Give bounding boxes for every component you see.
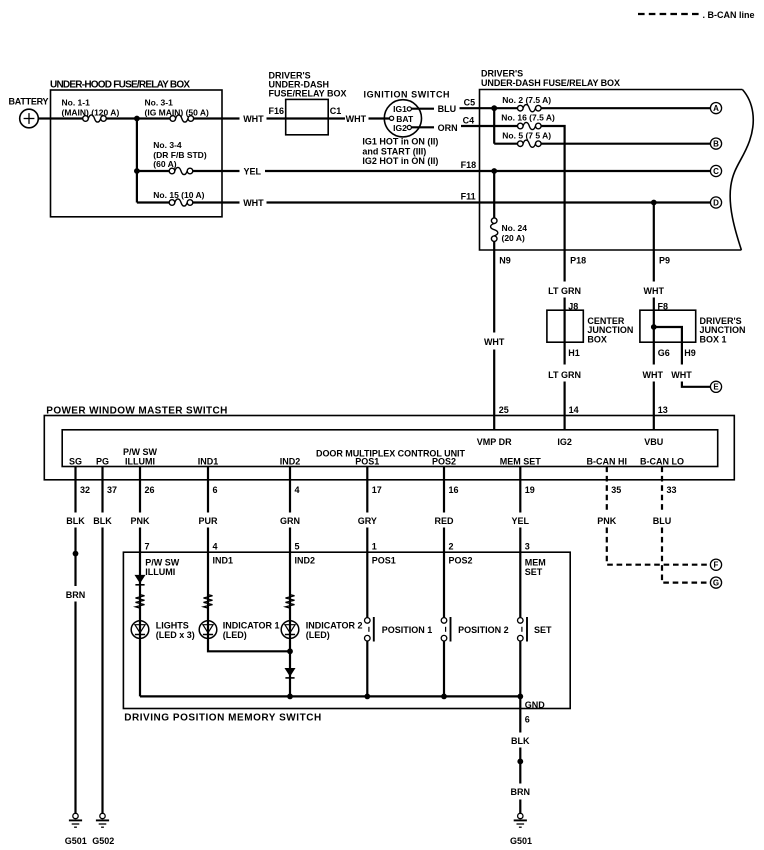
svg-text:BOX 1: BOX 1	[700, 335, 727, 345]
pin J8	[568, 301, 578, 311]
pin H1	[568, 348, 580, 358]
svg-text:F18: F18	[461, 160, 477, 170]
pin 4 (IND1)	[213, 542, 218, 552]
svg-text:BLU: BLU	[653, 516, 672, 526]
wire color label YEL	[244, 167, 262, 177]
connector F	[710, 559, 721, 570]
switch SET	[518, 617, 528, 642]
svg-text:GRN: GRN	[280, 516, 300, 526]
wire No.5 row from junction	[494, 143, 517, 145]
svg-text:ORN: ORN	[438, 123, 458, 133]
driver's under-dash fuse/relay box label	[481, 69, 620, 88]
svg-text:WHT: WHT	[243, 198, 264, 208]
pin 37	[107, 485, 117, 495]
svg-text:17: 17	[372, 485, 382, 495]
svg-text:F11: F11	[461, 191, 476, 201]
svg-text:G501: G501	[65, 836, 87, 846]
svg-text:4: 4	[213, 542, 218, 552]
pin 6	[213, 485, 218, 495]
svg-text:No. 1-1: No. 1-1	[62, 97, 91, 107]
svg-text:POS1: POS1	[372, 556, 396, 566]
connector G	[710, 577, 721, 588]
terminal label GND	[525, 700, 546, 710]
diode D1 on ILLUMI	[135, 575, 144, 584]
driver's under-dash fuse/relay box outline (wavy right edge)	[480, 90, 754, 251]
svg-text:RED: RED	[434, 516, 454, 526]
svg-text:WHT: WHT	[346, 114, 367, 124]
ground G502 symbol	[96, 813, 109, 827]
fuse No.1-1 (MAIN 120A)	[83, 115, 107, 122]
switch POSITION 1 label	[382, 625, 433, 635]
connector A	[710, 103, 721, 114]
wire ground bus in memory switch box	[140, 695, 520, 697]
center junction box label	[587, 316, 633, 345]
wire P18 down to center junction box	[563, 250, 565, 430]
svg-text:1: 1	[372, 542, 377, 552]
svg-text:(20 A): (20 A)	[502, 233, 525, 243]
battery B1 label	[9, 97, 49, 107]
node junction dot MEM SET at bus	[517, 694, 523, 700]
switch POSITION 2	[441, 617, 450, 642]
wire color label BLK on GND wire	[511, 736, 530, 746]
svg-text:No. 2 (7.5 A): No. 2 (7.5 A)	[502, 95, 551, 105]
pin C5	[464, 98, 476, 108]
wire YEL long run to under-dash box F18	[265, 170, 710, 172]
node junction dot inside driver's junction box	[651, 324, 657, 330]
svg-text:H1: H1	[568, 348, 580, 358]
wire row2 branch to fuse No.3-4	[137, 170, 169, 172]
node junction dot F11-P9	[651, 200, 657, 206]
wire row1 box edge to fuse No.1-1	[51, 117, 83, 119]
svg-text:6: 6	[525, 715, 530, 725]
wire POS1 column in box	[366, 552, 368, 696]
wire IND2 column in box	[289, 552, 291, 696]
terminal label VMP DR	[477, 437, 512, 447]
svg-text:C4: C4	[463, 115, 475, 125]
terminal label IG2	[557, 437, 572, 447]
svg-text:No. 16 (7.5 A): No. 16 (7.5 A)	[501, 113, 555, 123]
fuse No.1-1 label	[62, 97, 120, 117]
wire color label LT GRN upper	[548, 286, 581, 296]
terminal label MEM SET inside	[525, 558, 546, 577]
svg-text:GRY: GRY	[358, 516, 377, 526]
wire vertical C5 junction down to No.5 row	[493, 108, 495, 144]
wire fuse No.5 to connector B	[541, 143, 710, 145]
svg-text:3: 3	[525, 542, 530, 552]
pin 16	[449, 485, 459, 495]
ground G501 right label	[510, 836, 532, 846]
wire GND pin 6 down to ground G501	[519, 709, 521, 814]
pin G6	[658, 348, 670, 358]
wire color label WHT on H9 wire	[671, 370, 692, 380]
svg-text:(LED x 3): (LED x 3)	[156, 630, 195, 640]
node junction dot row1	[134, 116, 140, 122]
switch SET label	[534, 625, 552, 635]
fuse No.3-4 (DR F/B STD 60A)	[169, 167, 193, 174]
wire B-CAN LO dashed pin 33 to connector G	[662, 467, 710, 583]
wire row3 branch to fuse No.15	[137, 201, 169, 203]
svg-text:SG: SG	[69, 456, 82, 466]
svg-text:IG2 HOT in ON (II): IG2 HOT in ON (II)	[362, 156, 438, 166]
terminal label SG	[69, 456, 82, 466]
svg-text:GND: GND	[525, 700, 546, 710]
terminal label POS2 inside	[449, 556, 473, 566]
wire color label PUR on IND1	[198, 516, 218, 526]
svg-text:32: 32	[80, 485, 90, 495]
wire IND2 pin 4 down to memory switch pin 5	[289, 467, 291, 553]
wire color label LT GRN lower	[548, 370, 581, 380]
svg-text:SET: SET	[534, 625, 552, 635]
ground G501 left symbol	[69, 813, 82, 827]
terminal label POS1	[355, 456, 379, 466]
terminal label IND1	[198, 456, 219, 466]
svg-text:YEL: YEL	[244, 167, 262, 177]
node junction dot on SG wire	[73, 551, 79, 557]
wire POS2 column in box	[443, 552, 445, 696]
wire color label BLU	[438, 104, 457, 114]
svg-text:IG2: IG2	[557, 437, 572, 447]
wire color label WHT row1	[243, 114, 264, 124]
svg-text:C: C	[713, 167, 719, 176]
diode D2 on IND2	[285, 669, 294, 678]
svg-text:25: 25	[499, 405, 509, 415]
wire C4 entry to fuse No.16	[480, 125, 518, 127]
svg-text:N9: N9	[499, 255, 511, 265]
svg-text:SET: SET	[525, 567, 543, 577]
connector D	[710, 197, 721, 208]
svg-text:4: 4	[295, 485, 300, 495]
fuse No.15 label	[153, 190, 204, 200]
node junction dot F18	[491, 168, 497, 174]
svg-text:2: 2	[449, 542, 454, 552]
svg-text:B-CAN HI: B-CAN HI	[587, 456, 628, 466]
svg-text:C5: C5	[464, 98, 476, 108]
svg-text:LT GRN: LT GRN	[548, 370, 581, 380]
svg-text:WHT: WHT	[644, 286, 665, 296]
ground G501 left label	[65, 836, 87, 846]
wire F18 junction down to fuse No.24	[493, 171, 495, 218]
svg-text:BRN: BRN	[511, 787, 531, 797]
ignition switch terminal IG1	[393, 104, 411, 114]
node junction dot POS2 at bus	[441, 694, 447, 700]
svg-text:BRN: BRN	[66, 590, 86, 600]
pin 5	[295, 542, 300, 552]
svg-text:YEL: YEL	[512, 516, 530, 526]
wire color label WHT on P9 wire	[644, 286, 665, 296]
pin 35	[611, 485, 621, 495]
svg-text:BLU: BLU	[438, 104, 457, 114]
fuse No.3-4 label	[153, 140, 207, 169]
svg-text:WHT: WHT	[643, 370, 664, 380]
wire IG1 to BLU	[411, 108, 434, 110]
svg-text:BOX: BOX	[587, 335, 607, 345]
connector C	[710, 165, 721, 176]
wire IND1 column in box	[208, 552, 290, 651]
pin C1	[330, 106, 342, 116]
wire branch to H9	[654, 327, 711, 387]
svg-text:6: 6	[213, 485, 218, 495]
svg-text:16: 16	[449, 485, 459, 495]
svg-text:ILLUMI: ILLUMI	[125, 456, 155, 466]
svg-text:B-CAN LO: B-CAN LO	[640, 456, 684, 466]
wire fuse No.3-1 out of box	[194, 117, 240, 119]
pin 14	[569, 405, 579, 415]
wire color label WHT on N9 wire	[484, 337, 505, 347]
ground G502 label	[92, 836, 114, 846]
svg-text:C1: C1	[330, 106, 342, 116]
fuse No.5 (7.5A)	[518, 140, 542, 147]
svg-text:G: G	[713, 579, 719, 588]
wire color label YEL on MEM SET	[512, 516, 530, 526]
svg-text:POS2: POS2	[432, 456, 456, 466]
wire color label PNK on B-CAN HI	[597, 516, 617, 526]
wire WHT to F16 small box	[267, 117, 346, 119]
pin 2	[449, 542, 454, 552]
LED indicator 2	[281, 621, 299, 639]
wire color label PNK on ILLUMI	[130, 516, 150, 526]
svg-text:POSITION 1: POSITION 1	[382, 625, 433, 635]
pin 26	[145, 485, 155, 495]
terminal label IND2	[280, 456, 301, 466]
wire ILLUMI pin 26 down to memory switch pin 7	[139, 467, 141, 553]
svg-text:POSITION 2: POSITION 2	[458, 625, 509, 635]
ground G501 right symbol	[514, 813, 527, 827]
svg-text:IND1: IND1	[213, 556, 234, 566]
LED indicator 2 label	[306, 621, 363, 640]
driver's junction box 1 outline	[640, 310, 696, 342]
svg-text:BLK: BLK	[66, 516, 85, 526]
wire MEM SET pin 19 down to memory switch pin 3	[519, 467, 521, 553]
pin 13	[658, 405, 668, 415]
svg-text:. B-CAN line: . B-CAN line	[703, 10, 755, 20]
svg-text:ILLUMI: ILLUMI	[145, 567, 175, 577]
terminal label P/W SW ILLUMI inside	[145, 558, 180, 577]
svg-text:(LED): (LED)	[306, 630, 330, 640]
terminal label POS2	[432, 456, 456, 466]
fuse No.16 label	[501, 113, 555, 123]
svg-text:A: A	[713, 104, 719, 113]
wire vertical branch inside under-hood box	[136, 119, 138, 203]
power window master switch label	[46, 405, 227, 416]
svg-text:13: 13	[658, 405, 668, 415]
fuse No.24 label	[502, 223, 528, 243]
ignition switch SW1 circle	[384, 100, 421, 137]
svg-text:WHT: WHT	[243, 114, 264, 124]
svg-text:PG: PG	[96, 456, 109, 466]
wire WHT to ignition switch BAT	[369, 117, 390, 119]
wire color label GRY on POS1	[358, 516, 377, 526]
svg-text:IND2: IND2	[295, 556, 316, 566]
under-hood fuse/relay box label	[50, 80, 190, 91]
svg-text:IG2: IG2	[393, 123, 407, 133]
svg-text:BLK: BLK	[511, 736, 530, 746]
wire ORN to under-dash box C4	[461, 125, 480, 127]
svg-text:FUSE/RELAY BOX: FUSE/RELAY BOX	[269, 89, 347, 99]
ignition switch label	[364, 90, 450, 100]
resistor R3 on IND2	[286, 595, 295, 609]
wire MEM SET column in box	[519, 552, 521, 708]
pin H9	[684, 348, 696, 358]
pin F18	[461, 160, 477, 170]
svg-text:19: 19	[525, 485, 535, 495]
wire POS2 pin 16 down to memory switch pin 2	[443, 467, 445, 553]
wire color label BLU on B-CAN LO	[653, 516, 672, 526]
wire P9 vertical inside box	[653, 203, 655, 251]
wire color label WHT at ignition	[346, 114, 367, 124]
driving position memory switch box outline	[123, 552, 570, 708]
svg-text:PUR: PUR	[198, 516, 218, 526]
svg-text:D: D	[713, 198, 719, 207]
ignition switch terminal BAT	[390, 114, 414, 124]
wire B-CAN HI dashed pin 35 to connector F	[607, 467, 711, 565]
svg-text:35: 35	[611, 485, 621, 495]
fuse No.16 (7.5A)	[518, 122, 542, 129]
LED lights (LED x 3)	[131, 621, 149, 639]
svg-text:MEM SET: MEM SET	[500, 456, 542, 466]
wire fuse No.1-1 to fuse No.3-1	[106, 117, 170, 119]
pin 32	[80, 485, 90, 495]
terminal label VBU	[644, 437, 663, 447]
wire ILLUMI column in box	[139, 552, 141, 696]
wire IG2 to ORN	[411, 126, 434, 128]
terminal label PG	[96, 456, 109, 466]
svg-text:DRIVING POSITION MEMORY SWITCH: DRIVING POSITION MEMORY SWITCH	[124, 712, 321, 723]
wire fuse No.24 to box bottom N9	[493, 242, 495, 251]
fuse No.3-1 label	[145, 97, 210, 117]
svg-text:No. 5 (7 5 A): No. 5 (7 5 A)	[502, 130, 551, 140]
node junction dot IND2 at bus	[287, 694, 293, 700]
pin 25	[499, 405, 509, 415]
wire P9 down to VBU pin 13	[653, 250, 655, 430]
svg-text:(60 A): (60 A)	[153, 159, 176, 169]
center junction box outline	[547, 310, 583, 342]
svg-text:VMP DR: VMP DR	[477, 437, 512, 447]
svg-text:P9: P9	[659, 255, 670, 265]
node junction dot C5	[491, 105, 497, 111]
svg-text:BLK: BLK	[93, 516, 112, 526]
wire fuse No.2 to connector A	[541, 107, 710, 109]
svg-text:F: F	[714, 561, 719, 570]
svg-text:VBU: VBU	[644, 437, 663, 447]
svg-text:37: 37	[107, 485, 117, 495]
terminal label IND1 inside	[213, 556, 234, 566]
svg-text:IND2: IND2	[280, 456, 301, 466]
driver's under-dash fuse/relay box (small) outline	[286, 99, 329, 134]
wire SG pin 32 down to ground G501	[74, 467, 76, 814]
svg-text:26: 26	[145, 485, 155, 495]
fuse No.3-1 (IG MAIN 50A)	[170, 115, 194, 122]
pin 7	[145, 542, 150, 552]
svg-text:B: B	[713, 140, 719, 149]
resistor R1 on ILLUMI	[136, 595, 145, 609]
svg-text:BATTERY: BATTERY	[9, 97, 49, 107]
wire color label RED on POS2	[434, 516, 454, 526]
svg-text:UNDER-HOOD FUSE/RELAY BOX: UNDER-HOOD FUSE/RELAY BOX	[50, 80, 190, 91]
legend label B-CAN line	[703, 10, 755, 20]
driver's junction box 1 label	[700, 316, 746, 345]
pin 19	[525, 485, 535, 495]
pin 17	[372, 485, 382, 495]
svg-text:F16: F16	[269, 106, 285, 116]
node junction dot row2	[134, 168, 140, 174]
svg-text:LT GRN: LT GRN	[548, 286, 581, 296]
pin F11	[461, 191, 476, 201]
driver's under-dash fuse/relay box (small) label	[269, 71, 347, 99]
door multiplex control unit box	[62, 430, 718, 467]
terminal label IND2 inside	[295, 556, 316, 566]
svg-text:No. 3-1: No. 3-1	[145, 97, 174, 107]
svg-text:IG1 HOT in ON (II): IG1 HOT in ON (II)	[362, 137, 438, 147]
svg-text:PNK: PNK	[597, 516, 617, 526]
LED indicator 1 label	[223, 621, 280, 640]
wire IND1 pin 6 down to memory switch pin 4	[207, 467, 209, 553]
pin 33	[667, 485, 677, 495]
svg-text:POS1: POS1	[355, 456, 379, 466]
wire BLU to under-dash box C5	[460, 107, 480, 109]
svg-text:PNK: PNK	[130, 516, 150, 526]
terminal label P/W SW ILLUMI	[123, 447, 158, 466]
wire color label WHT on G6 wire	[643, 370, 664, 380]
switch POSITION 2 label	[458, 625, 509, 635]
pin 1	[372, 542, 377, 552]
svg-text:No. 3-4: No. 3-4	[153, 140, 182, 150]
terminal label MEM SET	[500, 456, 542, 466]
svg-text:G501: G501	[510, 836, 532, 846]
wire color label BRN on GND wire	[511, 787, 531, 797]
svg-text:POWER WINDOW MASTER SWITCH: POWER WINDOW MASTER SWITCH	[46, 405, 227, 416]
wire color label GRN on IND2	[280, 516, 300, 526]
ignition switch terminal IG2	[393, 123, 411, 133]
pin P18	[570, 255, 586, 265]
svg-text:and START (III): and START (III)	[362, 146, 426, 156]
svg-text:WHT: WHT	[484, 337, 505, 347]
wire fuse No.15 out of box	[193, 201, 240, 203]
svg-text:No. 24: No. 24	[502, 223, 528, 233]
LED lights label	[156, 621, 195, 640]
power window master switch outer box	[44, 416, 734, 480]
wire C5 entry to fuse No.2	[480, 107, 518, 109]
node junction dot on GND wire	[517, 759, 523, 765]
wire fuse No.16 to P18 corner	[541, 126, 565, 250]
svg-text:14: 14	[569, 405, 579, 415]
ignition switch note	[362, 137, 438, 167]
svg-text:E: E	[713, 383, 719, 392]
fuse No.24 (20A) vertical	[491, 218, 498, 242]
svg-text:(LED): (LED)	[223, 630, 247, 640]
pin C4	[463, 115, 475, 125]
svg-text:POS2: POS2	[449, 556, 473, 566]
pin N9	[499, 255, 511, 265]
wire WHT long run to under-dash box F11	[267, 201, 711, 203]
wire POS1 pin 17 down to memory switch pin 1	[366, 467, 368, 553]
svg-text:33: 33	[667, 485, 677, 495]
battery B1 symbol	[20, 109, 39, 128]
svg-text:IG1: IG1	[393, 104, 407, 114]
wire PG pin 37 down to ground G502	[101, 467, 103, 814]
connector E	[710, 381, 721, 392]
pin P9	[659, 255, 670, 265]
fuse No.15 (10A)	[169, 199, 193, 206]
fuse No.2 (7.5A)	[518, 105, 542, 112]
resistor R2 on IND1	[204, 595, 213, 609]
svg-text:WHT: WHT	[671, 370, 692, 380]
svg-text:G502: G502	[92, 836, 114, 846]
svg-text:UNDER-DASH FUSE/RELAY BOX: UNDER-DASH FUSE/RELAY BOX	[481, 78, 620, 88]
svg-text:IGNITION SWITCH: IGNITION SWITCH	[364, 90, 450, 100]
pin F16	[269, 106, 285, 116]
fuse No.2 label	[502, 95, 551, 105]
terminal label POS1 inside	[372, 556, 396, 566]
